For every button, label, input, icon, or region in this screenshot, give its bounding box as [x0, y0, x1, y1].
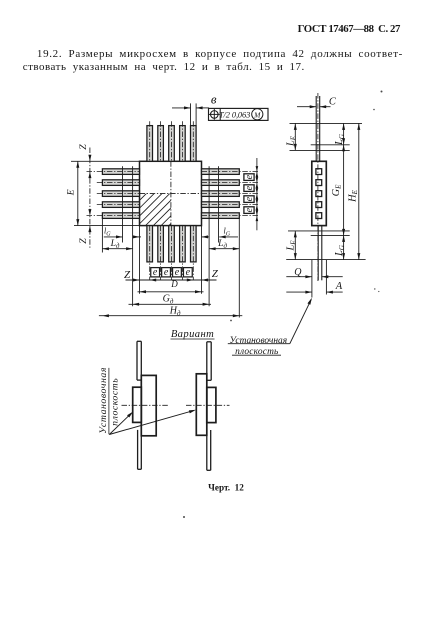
side view lead cross-section 4	[316, 202, 322, 208]
scan specks	[381, 91, 383, 93]
HE dimension	[358, 123, 360, 259]
left lead 4 centerline	[97, 204, 140, 206]
svg-text:е: е	[175, 267, 180, 278]
Lp left dimension	[102, 248, 132, 250]
side view lead cross-section 3	[316, 191, 322, 197]
Z dimension line (left vertical)	[89, 148, 91, 249]
body vertical centerline	[170, 161, 172, 225]
svg-text:НЕ: НЕ	[347, 189, 359, 202]
A extension line	[325, 260, 327, 295]
boxed pitch label e right 4	[244, 207, 254, 214]
seating plane line left	[122, 166, 124, 242]
combined extension line left	[132, 166, 134, 306]
svg-text:Z: Z	[78, 238, 89, 244]
top reference line	[290, 122, 363, 124]
top lead 4 centerline	[181, 121, 183, 161]
boxed pitch label e bottom 3	[173, 268, 182, 277]
GE dimension	[343, 145, 345, 236]
svg-text:С: С	[329, 97, 337, 108]
e chain arrow pair at lead 3 axis	[256, 188, 259, 194]
svg-text:GЕ: GЕ	[331, 184, 343, 196]
svg-text:Z: Z	[78, 144, 89, 150]
side view centerline	[317, 93, 319, 281]
left lead 5 centerline	[87, 215, 140, 217]
bottom lead 5	[191, 226, 197, 262]
A dimension	[286, 291, 312, 293]
right lead 3	[202, 191, 240, 197]
Lp right dimension	[209, 248, 239, 250]
right lead 3 centerline	[202, 193, 259, 195]
top lead 3 centerline	[171, 121, 173, 161]
leader to seating plane	[290, 299, 312, 343]
bottom lead 4 centerline	[181, 226, 183, 280]
bottom lead 4	[180, 226, 186, 262]
e chain arrow pair at lead 5 axis	[256, 210, 259, 216]
svg-text:Черт. 12: Черт. 12	[208, 482, 244, 492]
svg-text:е: е	[164, 267, 169, 278]
variant 2 standoff	[207, 387, 216, 422]
LG bottom dimension	[343, 235, 345, 259]
extension line at right lead tips	[238, 219, 240, 318]
LE top dimension	[294, 123, 296, 150]
svg-text:А: А	[335, 281, 343, 292]
right lead 2	[202, 180, 240, 186]
svg-text:LЕ: LЕ	[286, 240, 298, 252]
LE top end line	[290, 149, 350, 151]
svg-text:Нд: Нд	[169, 306, 181, 318]
boxed pitch label e bottom 1	[151, 268, 160, 277]
variant 2 centerline	[186, 404, 230, 406]
right lead 1	[202, 169, 240, 175]
side view bottom lead	[317, 226, 319, 281]
bottom lead 1	[147, 226, 153, 262]
E dimension line	[77, 161, 79, 225]
Z-D-Z dimension line bottom	[126, 279, 217, 281]
lG right dimension	[219, 236, 238, 238]
svg-text:Z: Z	[124, 269, 131, 281]
left lead 4	[102, 202, 139, 208]
variant 1 body	[141, 375, 156, 435]
e chain arrow pair at lead 1 axis	[256, 166, 259, 172]
side view lead cross-section 1	[316, 169, 322, 175]
top lead 1 centerline	[149, 121, 151, 161]
svg-text:Установочная: Установочная	[98, 367, 109, 434]
LG bottom end line	[311, 234, 350, 236]
svg-text:Gд: Gд	[163, 294, 174, 306]
svg-text:е: е	[244, 196, 255, 201]
e chain arrow pair at lead 4 axis	[256, 199, 259, 205]
leader arrow to variant 1	[109, 414, 131, 435]
top lead 4	[180, 126, 186, 162]
top lead 5 centerline	[192, 121, 194, 161]
Q extension line	[311, 260, 313, 298]
LE bottom end line	[288, 230, 350, 232]
right lead 4 centerline	[202, 204, 259, 206]
M circle	[252, 109, 263, 120]
C dimension	[297, 106, 316, 108]
position tolerance frame	[209, 108, 269, 120]
left lead 5	[102, 213, 139, 219]
svg-text:е: е	[153, 267, 158, 278]
body right edge extension	[201, 226, 203, 294]
side view top lead	[315, 96, 317, 161]
boxed pitch label e right 1	[244, 174, 254, 181]
svg-text:LG: LG	[334, 245, 346, 257]
svg-text:е: е	[186, 267, 191, 278]
svg-text:lG: lG	[104, 227, 111, 238]
svg-text:Е: Е	[65, 189, 76, 196]
body horizontal centerline	[140, 193, 202, 195]
LE bottom dimension	[294, 231, 296, 260]
side view lead cross-section 2	[316, 180, 322, 186]
bottom lead 3	[169, 226, 175, 262]
left lead 3 centerline	[97, 193, 140, 195]
e chain arrow pair at lead 2 axis	[256, 177, 259, 183]
D dimension line	[138, 291, 204, 293]
position symbol	[211, 111, 219, 119]
H_d dimension line	[99, 315, 242, 317]
variant 1 lead bottom	[137, 430, 139, 469]
side view lead cross-section 5	[316, 213, 322, 219]
right lead 1 centerline	[202, 171, 259, 173]
bottom lead 5 centerline	[192, 226, 194, 280]
svg-text:Установочная: Установочная	[230, 336, 288, 346]
LG top end line	[311, 144, 350, 146]
top lead 2	[158, 126, 164, 162]
boxed pitch label e right 2	[244, 185, 254, 192]
variant 1 standoff	[133, 387, 142, 422]
LG top dimension	[343, 123, 345, 144]
Q dimension	[286, 276, 312, 278]
side view body	[312, 161, 327, 225]
svg-text:М: М	[253, 110, 261, 119]
svg-text:Lд: Lд	[110, 238, 120, 250]
e chain dimension line right	[256, 158, 258, 230]
boxed pitch label e bottom 4	[183, 268, 192, 277]
top lead 1	[147, 126, 153, 162]
bottom lead 3 centerline	[171, 226, 173, 280]
svg-text:LG: LG	[334, 134, 346, 146]
bottom lead 2	[158, 226, 164, 262]
variant 1 centerline	[122, 404, 170, 406]
hatched quadrant	[105, 188, 215, 228]
svg-text:LЕ: LЕ	[286, 135, 298, 147]
svg-text:в: в	[211, 92, 217, 107]
dimension b (lead width) extension lines	[190, 103, 192, 125]
right lead 4	[202, 202, 240, 208]
left lead 2	[102, 180, 139, 186]
svg-text:е: е	[244, 174, 255, 179]
variant 2 body	[196, 374, 207, 436]
lG left dimension	[104, 236, 123, 238]
top lead 2 centerline	[160, 121, 162, 161]
dimension b arrows	[172, 107, 191, 109]
variant 2 lead top	[206, 342, 208, 374]
svg-text:е: е	[244, 185, 255, 190]
extension line at left lead tips	[101, 215, 103, 253]
right lead 5	[202, 213, 240, 219]
right lead 5 centerline	[202, 215, 259, 217]
combined extension line right	[208, 166, 210, 306]
IC body outline	[140, 161, 202, 225]
left lead 1 centerline	[87, 171, 140, 173]
svg-text:е: е	[244, 207, 255, 212]
E extension lines (body edges extended left)	[71, 160, 140, 162]
svg-text:Lд: Lд	[217, 238, 227, 250]
bottom lead 2 centerline	[160, 226, 162, 280]
left lead 1	[102, 169, 139, 175]
variant 2 lead bottom	[206, 435, 208, 470]
seating plane line (side view)	[286, 259, 365, 261]
variant 1 lead top	[136, 341, 138, 380]
top lead 5	[191, 126, 197, 162]
svg-text:D: D	[170, 279, 178, 289]
svg-text:Вариант: Вариант	[171, 329, 214, 340]
boxed pitch label e bottom 2	[162, 268, 171, 277]
body left edge extension	[139, 226, 141, 294]
leader arrow to variant 2	[109, 410, 194, 434]
top lead 3	[169, 126, 175, 162]
boxed pitch label e right 3	[244, 196, 254, 203]
left lead 2 centerline	[97, 182, 140, 184]
svg-text:Q: Q	[294, 267, 302, 278]
svg-text:плоскость: плоскость	[110, 378, 121, 426]
left lead 3	[102, 191, 139, 197]
G_d dimension line	[129, 303, 212, 305]
svg-text:Т/2 0,063: Т/2 0,063	[219, 111, 250, 120]
seating plane line right	[218, 166, 220, 242]
svg-text:Z: Z	[212, 268, 219, 280]
right lead 2 centerline	[202, 182, 259, 184]
bottom lead 1 centerline	[149, 226, 151, 280]
